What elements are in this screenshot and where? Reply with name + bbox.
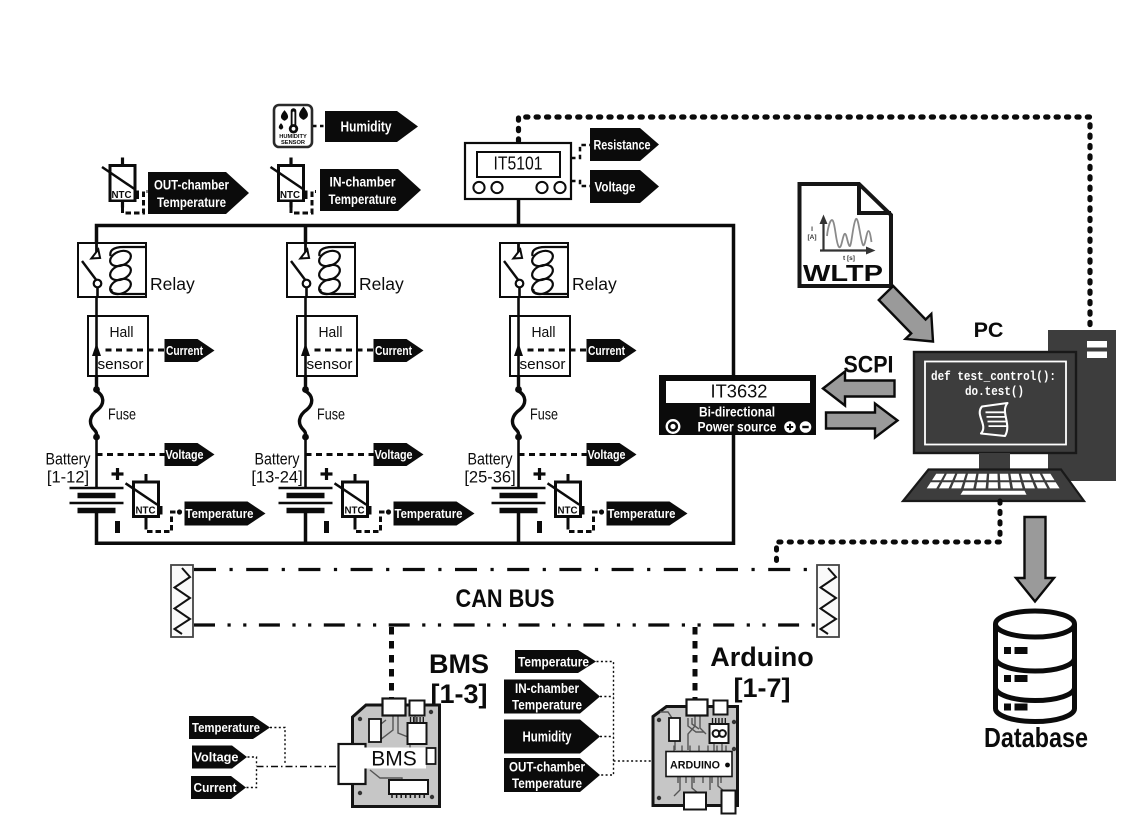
svg-text:Relay: Relay: [572, 274, 617, 294]
svg-text:Hall: Hall: [532, 325, 556, 341]
svg-text:Voltage: Voltage: [375, 448, 413, 462]
svg-text:I: I: [811, 226, 813, 233]
svg-text:OUT-chamber: OUT-chamber: [509, 760, 586, 775]
wire top bus: [97, 226, 734, 376]
wire rail to Arduino board: [614, 760, 652, 762]
svg-text:Fuse: Fuse: [317, 407, 345, 424]
wire IT5101 to flag Voltage: [571, 181, 590, 186]
relay K2: [287, 243, 355, 297]
svg-text:PC: PC: [974, 318, 1004, 342]
svg-text:IN-chamber: IN-chamber: [330, 173, 396, 189]
svg-text:NTC: NTC: [136, 506, 156, 517]
BMS circuit board: [339, 699, 440, 807]
flag Current 3: [587, 339, 637, 362]
svg-text:Battery: Battery: [468, 451, 514, 469]
svg-text:SCPI: SCPI: [844, 352, 894, 379]
humidity sensor icon: [274, 105, 312, 147]
hall sensor 2: [297, 316, 357, 376]
arrow SCPI left: [823, 372, 895, 406]
svg-text:[A]: [A]: [807, 234, 816, 241]
fuse F1: [90, 376, 102, 440]
svg-text:[25-36]: [25-36]: [464, 469, 515, 487]
flag IN-chamber Temperature: [320, 169, 421, 211]
svg-text:Fuse: Fuse: [108, 407, 136, 424]
flag Voltage (IT5101): [590, 170, 659, 203]
flag IN-chamber Temperature (Arduino): [504, 680, 600, 714]
CAN terminator resistor right: [817, 565, 839, 637]
wire Voltage flag to BMS: [248, 757, 257, 766]
wire battery NTC to flag Temperature 2: [355, 512, 386, 532]
svg-text:[1-12]: [1-12]: [47, 469, 89, 487]
flag Temperature (battery) 2: [394, 502, 475, 526]
svg-text:Current: Current: [375, 344, 413, 358]
flag OUT-chamber Temperature (Arduino): [504, 758, 600, 792]
control line IT5101 to PC (dotted): [519, 117, 1091, 329]
wire bottom bus: [97, 435, 734, 543]
svg-text:NTC: NTC: [345, 506, 365, 517]
flag Temperature (BMS): [189, 716, 270, 739]
flag Humidity (Arduino): [504, 720, 600, 754]
svg-text:NTC: NTC: [558, 506, 578, 517]
wire hall sensor to flag Current 1: [106, 349, 165, 352]
CAN BUS line high: [194, 568, 817, 571]
svg-text:BMS: BMS: [429, 649, 489, 679]
wire flags to BMS board: [257, 766, 339, 768]
NTC thermistor (OUT-chamber): [102, 158, 139, 208]
svg-text:Voltage: Voltage: [588, 448, 626, 462]
svg-text:CAN BUS: CAN BUS: [456, 585, 555, 613]
battery B2: [279, 468, 333, 533]
arrow WLTP to PC: [879, 286, 933, 342]
PC stand: [979, 453, 1010, 470]
control line PC to CAN BUS (dotted): [777, 501, 1001, 567]
wire OUT NTC to flag: [123, 192, 148, 214]
fuse F3: [512, 376, 524, 440]
svg-text:OUT-chamber: OUT-chamber: [154, 176, 229, 192]
wire battery to flag Voltage 2: [306, 453, 374, 456]
svg-text:Power source: Power source: [698, 420, 777, 435]
wire CAN to Arduino (dashed): [693, 627, 698, 702]
svg-text:Current: Current: [588, 344, 626, 358]
svg-text:sensor: sensor: [307, 357, 353, 373]
svg-text:ARDUINO: ARDUINO: [670, 760, 720, 772]
wire CAN to BMS (dashed): [389, 627, 394, 702]
svg-text:Relay: Relay: [359, 274, 404, 294]
svg-text:Hall: Hall: [110, 325, 134, 341]
wire hall sensor to flag Current 3: [528, 349, 587, 352]
svg-text:Voltage: Voltage: [166, 448, 204, 462]
flag Current 1: [165, 339, 215, 362]
wire humidity icon to flag: [313, 125, 325, 127]
svg-text:IT3632: IT3632: [711, 381, 768, 402]
flag Voltage (BMS): [192, 746, 247, 769]
svg-text:IT5101: IT5101: [494, 153, 543, 174]
svg-text:Temperature: Temperature: [395, 506, 463, 521]
flag Voltage (battery) 1: [165, 443, 215, 466]
wire battery NTC to flag Temperature 1: [146, 512, 177, 532]
wire IT5101 to flag Resistance: [571, 145, 590, 158]
svg-text:def test_control():: def test_control():: [931, 369, 1056, 384]
script icon on screen: [980, 403, 1008, 436]
wire fuse to battery 2: [304, 437, 307, 488]
meter IT5101: [465, 143, 571, 199]
flag Humidity (top): [325, 111, 418, 142]
wire battery NTC to flag Temperature 3: [568, 512, 599, 532]
svg-text:BMS: BMS: [371, 748, 417, 771]
arrow PC to Database: [1016, 517, 1054, 602]
Arduino circuit board: [653, 700, 738, 814]
svg-text:Voltage: Voltage: [595, 179, 636, 194]
fuse F2: [299, 376, 311, 440]
database cylinder: [996, 611, 1075, 722]
wire Current flag to BMS: [247, 768, 257, 788]
svg-text:WLTP: WLTP: [803, 260, 883, 286]
relay K3: [500, 243, 568, 297]
wire relay to hall sensor 1: [95, 297, 98, 316]
CAN BUS line low: [194, 623, 817, 626]
svg-text:sensor: sensor: [520, 357, 566, 373]
arrow SCPI right: [826, 404, 898, 438]
svg-text:Resistance: Resistance: [594, 137, 651, 152]
svg-text:Temperature: Temperature: [512, 776, 582, 791]
svg-text:Temperature: Temperature: [512, 698, 582, 713]
svg-text:IN-chamber: IN-chamber: [515, 681, 580, 696]
flag Voltage (battery) 2: [374, 443, 424, 466]
svg-text:[1-7]: [1-7]: [733, 673, 790, 703]
NTC thermistor battery 2: [335, 474, 372, 524]
svg-text:NTC: NTC: [112, 190, 132, 201]
CAN terminator resistor left: [171, 565, 193, 637]
wire middle flags rail: [597, 662, 614, 776]
relay K1: [78, 243, 146, 297]
svg-text:Relay: Relay: [150, 274, 195, 294]
svg-text:Temperature: Temperature: [186, 506, 254, 521]
battery B1: [70, 468, 124, 533]
NTC thermistor battery 3: [548, 474, 585, 524]
wire battery to flag Voltage 3: [519, 453, 587, 456]
svg-text:Fuse: Fuse: [530, 407, 558, 424]
PC monitor: [914, 352, 1076, 453]
hall sensor 1: [88, 316, 148, 376]
wire fuse to battery 1: [95, 437, 98, 488]
svg-text:Bi-directional: Bi-directional: [699, 405, 775, 420]
NTC thermistor battery 1: [126, 474, 163, 524]
flag OUT-chamber Temperature: [148, 172, 249, 214]
svg-text:Voltage: Voltage: [194, 750, 239, 765]
svg-text:[13-24]: [13-24]: [251, 469, 302, 487]
flag Voltage (battery) 3: [587, 443, 637, 466]
hall sensor 3: [510, 316, 570, 376]
svg-text:Temperature: Temperature: [329, 191, 397, 207]
document WLTP: [800, 184, 892, 286]
flag Current 2: [374, 339, 424, 362]
svg-text:Temperature: Temperature: [608, 506, 676, 521]
svg-text:Humidity: Humidity: [341, 120, 392, 136]
svg-text:NTC: NTC: [280, 190, 300, 201]
svg-text:Battery: Battery: [46, 451, 92, 469]
NTC thermistor (IN-chamber): [271, 158, 308, 208]
svg-text:Database: Database: [984, 722, 1088, 753]
flag Temperature (battery) 1: [185, 502, 266, 526]
flag Resistance: [590, 128, 659, 161]
wire hall sensor to flag Current 2: [315, 349, 374, 352]
flag Temperature (Arduino): [515, 650, 596, 673]
svg-text:Temperature: Temperature: [157, 194, 226, 210]
PC tower: [1048, 330, 1116, 481]
svg-text:Humidity: Humidity: [523, 730, 572, 746]
svg-text:Temperature: Temperature: [518, 654, 589, 669]
svg-text:Current: Current: [194, 780, 238, 795]
svg-text:Hall: Hall: [319, 325, 343, 341]
battery B3: [492, 468, 546, 533]
svg-text:SENSOR: SENSOR: [281, 140, 305, 146]
wire battery to flag Voltage 1: [97, 453, 165, 456]
svg-text:sensor: sensor: [98, 357, 144, 373]
power source IT3632: [659, 375, 816, 435]
wire relay to hall sensor 2: [304, 297, 307, 316]
flag Current (BMS): [191, 776, 246, 799]
svg-text:Arduino: Arduino: [710, 642, 813, 672]
wire relay to hall sensor 3: [517, 297, 520, 316]
svg-text:do.test(): do.test(): [965, 384, 1024, 399]
wire IN NTC to flag: [291, 192, 316, 214]
PC keyboard: [903, 470, 1084, 502]
svg-text:Temperature: Temperature: [192, 720, 260, 735]
flag Temperature (battery) 3: [607, 502, 688, 526]
svg-text:Current: Current: [166, 344, 204, 358]
svg-text:Battery: Battery: [255, 451, 301, 469]
wire fuse to battery 3: [517, 437, 520, 488]
wire IT5101 down to bus: [517, 199, 521, 226]
wire Temperature flag to BMS: [270, 728, 285, 765]
